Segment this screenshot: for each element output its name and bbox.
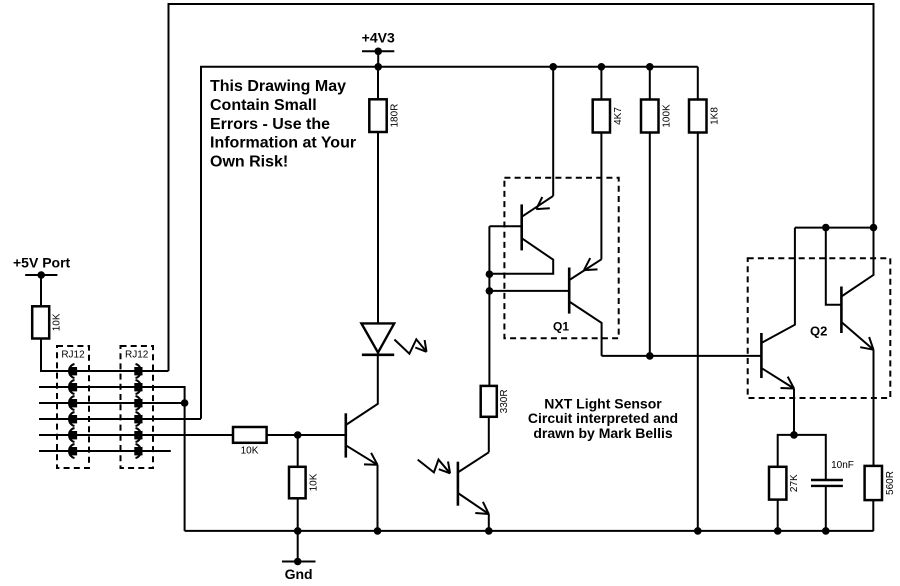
svg-text:4K7: 4K7	[613, 107, 624, 125]
wire rail corner to R 1K8	[697, 67, 699, 100]
wire R 10K vertical to ground rail	[297, 498, 299, 531]
node rail/Q1-emitter junction	[549, 63, 557, 71]
resistor 4K7	[593, 100, 610, 133]
LED D1 cathode bar	[362, 353, 394, 356]
wire Q2a emitter down to RC node	[793, 389, 795, 435]
transistor Q2a collector	[761, 228, 795, 343]
svg-text:NXT Light SensorCircuit interp: NXT Light SensorCircuit interpreted andd…	[528, 395, 678, 440]
wire R 10K to base node	[267, 434, 346, 436]
transistor Q1a base bar	[520, 204, 523, 250]
pin 4 RJ12 box 2	[134, 415, 142, 423]
node 27K/rail junction	[774, 527, 782, 535]
pin 5 RJ12 box 1	[69, 431, 77, 439]
svg-text:10K: 10K	[241, 446, 259, 457]
pin 2 RJ12 box 1	[69, 383, 77, 391]
wire RJ12 row 4 (to +4V3 drop)	[39, 418, 201, 420]
LED D1 triangle	[361, 323, 394, 352]
wire RJ12 row 6 stub	[39, 450, 171, 452]
svg-text:560R: 560R	[885, 471, 896, 495]
wire RJ12 row 2 to ground drop	[39, 387, 185, 531]
svg-text:10K: 10K	[309, 473, 320, 491]
connector RJ12 box 2 (dashed)	[121, 346, 154, 468]
wire R 560R to ground rail corner	[872, 500, 874, 531]
node phototransistor/rail junction	[485, 527, 493, 535]
pin 2 RJ12 box 2	[134, 383, 142, 391]
svg-text:10nF: 10nF	[831, 460, 854, 471]
pin 6 RJ12 box 1	[69, 447, 77, 455]
resistor 180R	[369, 99, 386, 132]
wire ground rail (bottom)	[185, 530, 874, 532]
wire RJ12 row 3	[39, 402, 185, 404]
svg-text:100K: 100K	[661, 104, 672, 128]
wire Q2 top rail	[795, 227, 874, 229]
node 100K/output junction	[646, 352, 654, 360]
resistor 10K (+5V feed)	[32, 306, 49, 338]
svg-text:Q2: Q2	[810, 323, 827, 338]
wire Q1a emitter to rail	[552, 67, 554, 196]
wire phototransistor emitter to rail	[488, 514, 490, 531]
wire Q1b base	[489, 290, 569, 292]
LED D1 light emission arrow	[394, 339, 426, 353]
phototransistor incident light arrow	[418, 460, 450, 474]
node RC junction	[790, 431, 798, 439]
transistor Q2b base bar	[840, 287, 843, 334]
svg-text:Gnd: Gnd	[285, 566, 313, 582]
wire RJ12 row 5 left segment	[39, 434, 233, 436]
pin 1 RJ12 box 1	[69, 367, 77, 375]
transistor Q (LED driver) base bar	[344, 413, 347, 457]
resistor 27K	[769, 467, 786, 500]
wire R 4K7 down to Q1 T2 emitter	[600, 133, 602, 260]
transistor Q2b emitter with arrow	[841, 322, 873, 350]
svg-text:+5V Port: +5V Port	[13, 255, 71, 271]
wire Q1a base	[489, 225, 521, 227]
wire R 100K down to output node	[649, 133, 651, 356]
resistor 100K	[641, 100, 659, 133]
pin 6 RJ12 box 2	[134, 447, 142, 455]
wire rail to R 100K	[649, 67, 651, 100]
wire +4V3 rail to R 180R	[377, 67, 379, 100]
wire emitter to ground rail	[377, 465, 379, 531]
svg-text:1K8: 1K8	[709, 107, 720, 125]
wire R 180R to LED anode	[377, 132, 379, 323]
wire Q1 left node vertical	[488, 226, 490, 386]
transistor Q2a emitter with arrow	[761, 368, 794, 389]
svg-text:Q1: Q1	[553, 320, 569, 334]
svg-text:RJ12: RJ12	[61, 350, 85, 361]
Q2 dashed box	[748, 258, 891, 398]
wire R 1K8 down to ground rail	[697, 133, 699, 531]
node Q2 rail/border junction	[870, 224, 878, 232]
node Q1b base junction	[486, 287, 494, 295]
wire Q1 output to Q2 base	[602, 355, 762, 357]
transistor Q1a emitter with arrow (PNP)	[522, 196, 554, 217]
svg-text:This Drawing MayContain SmallE: This Drawing MayContain SmallErrors - Us…	[210, 78, 356, 170]
wire rail to R 4K7	[600, 67, 602, 100]
wire Q2b emitter down to R 560R	[873, 350, 875, 466]
transistor Q1a collector	[489, 238, 553, 274]
resistor 1K8	[689, 100, 707, 133]
wire +5V Port to R 10K	[40, 275, 42, 306]
wire R 10K to RJ12 row 1	[41, 339, 169, 372]
capacitor 10nF plates	[811, 479, 843, 481]
wire R 330R to phototransistor collector	[488, 417, 490, 453]
wire RC node to 27K	[778, 435, 794, 467]
svg-text:RJ12: RJ12	[125, 350, 149, 361]
resistor 10K (pull-down)	[289, 467, 306, 499]
wire R 27K to ground rail	[777, 500, 779, 531]
transistor Q1b emitter with arrow (PNP)	[569, 259, 601, 280]
pin 3 RJ12 box 2	[134, 399, 142, 407]
ground symbol Gnd (stem, bar, dot)	[297, 531, 299, 562]
svg-text:180R: 180R	[390, 104, 401, 128]
phototransistor base bar	[457, 462, 460, 506]
wire RC node to capacitor	[794, 435, 826, 479]
wire +4V3 rail with left drop to RJ12 row 4	[201, 67, 698, 419]
pin 4 RJ12 box 1	[69, 415, 77, 423]
node Q2 rail/base-feed junction	[822, 224, 830, 232]
node rail/10K-vert junction	[294, 527, 302, 535]
wire +5V loop (left border, top border, right border)	[169, 4, 874, 371]
pin 1 RJ12 box 2	[134, 367, 142, 375]
node capacitor/rail junction	[822, 527, 830, 535]
transistor Q1b base bar	[568, 268, 571, 314]
node rail/100K junction	[646, 63, 654, 71]
node row3/ground junction	[181, 399, 189, 407]
svg-text:+4V3: +4V3	[362, 29, 395, 45]
Q1 dashed box	[504, 178, 618, 339]
power symbol +4V3 (bar, stem, junction dots)	[362, 50, 394, 52]
node Q1a collector junction	[486, 270, 494, 278]
phototransistor collector	[458, 452, 489, 472]
transistor Q (LED driver) collector	[346, 355, 378, 425]
transistor Q (LED driver) emitter with arrow	[346, 445, 378, 465]
resistor 560R	[865, 466, 882, 500]
node 1K8/rail junction	[694, 527, 702, 535]
pin 5 RJ12 box 2	[134, 431, 142, 439]
transistor Q1b collector	[569, 302, 601, 356]
resistor 10K (base series)	[233, 427, 267, 443]
connector RJ12 box 1 (dashed)	[57, 346, 89, 468]
node base junction	[294, 431, 302, 439]
phototransistor emitter with arrow	[458, 493, 489, 514]
svg-text:27K: 27K	[789, 474, 800, 492]
node emitter/rail junction	[374, 527, 382, 535]
transistor Q2a base bar	[760, 333, 763, 378]
wire base node down to R 10K vertical	[297, 435, 299, 467]
node rail/4K7 junction	[598, 63, 606, 71]
wire capacitor to ground rail	[825, 487, 827, 531]
svg-text:10K: 10K	[52, 313, 63, 331]
power symbol +5V Port (bar and dot)	[25, 274, 57, 276]
transistor Q2b collector	[841, 228, 873, 297]
pin 3 RJ12 box 1	[69, 399, 77, 407]
wire Q2b base feed	[826, 228, 842, 305]
svg-text:330R: 330R	[499, 389, 510, 413]
resistor 330R	[481, 386, 497, 417]
